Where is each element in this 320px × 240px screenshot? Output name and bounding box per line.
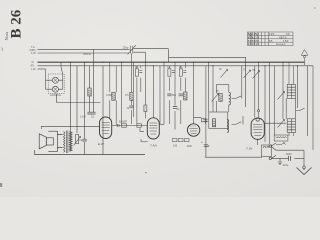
svg-text:250mA: 250mA — [83, 52, 91, 56]
svg-text:0,1: 0,1 — [167, 66, 171, 69]
svg-text:100: 100 — [173, 145, 178, 148]
svg-text:0,1: 0,1 — [135, 66, 139, 69]
svg-text:0,1: 0,1 — [91, 116, 95, 119]
svg-text:250p: 250p — [123, 45, 129, 49]
svg-text:AUSSCH.: AUSSCH. — [50, 93, 62, 97]
svg-text:50p: 50p — [172, 94, 177, 97]
svg-text:2w: 2w — [80, 139, 83, 142]
svg-text:BANDF: BANDF — [119, 121, 128, 124]
svg-text:0,1M: 0,1M — [80, 116, 86, 119]
svg-text:Erde: Erde — [283, 164, 289, 167]
svg-text:983818: 983818 — [248, 42, 260, 46]
svg-text:0,5M: 0,5M — [106, 94, 112, 97]
svg-text:5000: 5000 — [286, 153, 292, 156]
svg-text:65: 65 — [269, 39, 273, 43]
svg-text:L.W.: L.W. — [31, 68, 36, 71]
svg-text:100: 100 — [187, 144, 192, 148]
svg-text:+: + — [201, 141, 203, 145]
svg-text:7.AN: 7.AN — [150, 144, 158, 148]
svg-text:7.1N: 7.1N — [246, 147, 253, 151]
svg-text:220: 220 — [269, 32, 275, 36]
svg-text:0,1: 0,1 — [179, 66, 183, 69]
svg-text:K.W.: K.W. — [31, 52, 37, 55]
svg-text:0,5: 0,5 — [125, 94, 129, 97]
svg-text:2l.: 2l. — [32, 61, 35, 64]
svg-text:B 26: B 26 — [9, 9, 25, 38]
svg-text:Ausen: Ausen — [276, 42, 286, 46]
